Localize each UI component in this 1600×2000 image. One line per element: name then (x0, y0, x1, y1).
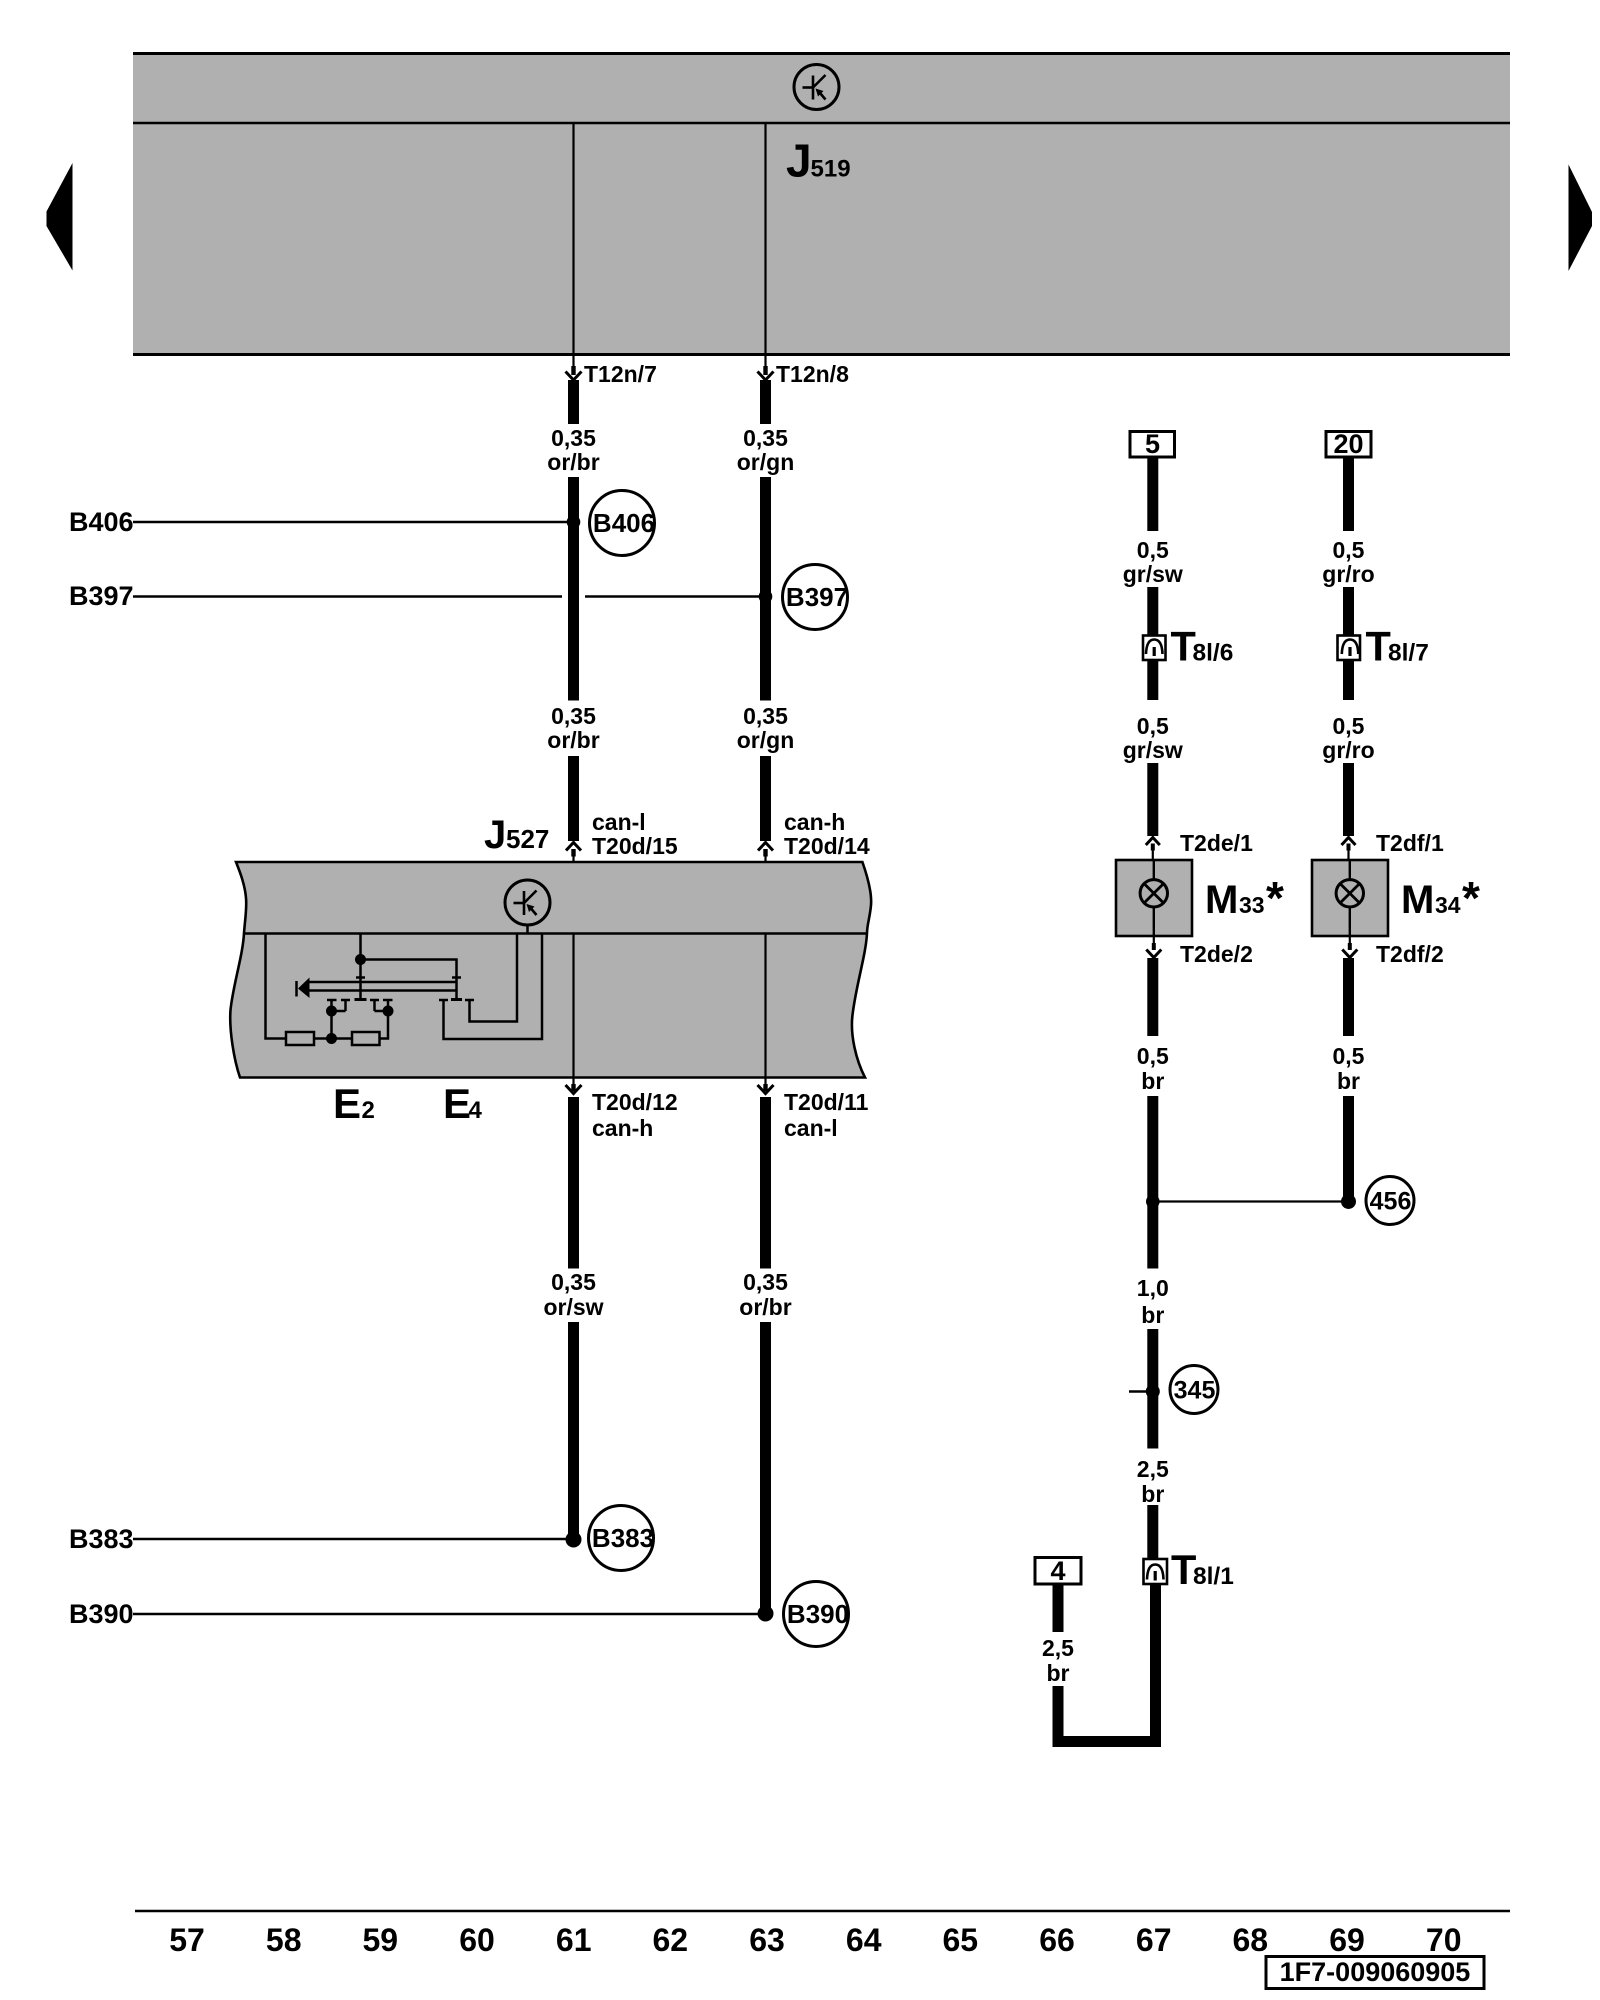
svg-text:4: 4 (469, 1097, 483, 1124)
J527 internal: resistor 2 (352, 1032, 380, 1045)
wire gr/sw segment 3 (1147, 660, 1158, 700)
pin T2de/2 exit arrow (1146, 936, 1253, 967)
connector T8l/1 (1144, 1559, 1168, 1584)
J527 internal: junction dot bottom (326, 1033, 337, 1044)
svg-text:68: 68 (1233, 1922, 1269, 1958)
wire label 0,35 or/br (second) (547, 703, 599, 753)
svg-text:0,5: 0,5 (1137, 1043, 1169, 1069)
wire or/sw lower segment (568, 1322, 579, 1537)
node 345 stub line (1129, 1390, 1153, 1393)
svg-text:T20d/15: T20d/15 (592, 833, 678, 859)
wire label 2,5 br (1137, 1456, 1169, 1507)
svg-text:J: J (786, 135, 812, 187)
wire or/gn upper segment (760, 380, 771, 424)
wire (thin) inside J519 at T12n/7 (572, 124, 574, 354)
svg-text:can-l: can-l (784, 1115, 838, 1141)
wire (thin) inside J519 at T12n/8 (764, 124, 766, 354)
svg-text:66: 66 (1039, 1922, 1075, 1958)
connector T8l/6 (1143, 636, 1166, 661)
svg-text:gr/ro: gr/ro (1322, 561, 1374, 587)
node B390 junction dot (758, 1606, 774, 1622)
wire gr/ro segment 1 (1343, 457, 1354, 531)
svg-text:br: br (1337, 1068, 1360, 1094)
svg-text:2,5: 2,5 (1137, 1456, 1169, 1482)
wire from circled K to internal rail (526, 925, 529, 933)
J527 internal: center gate line with junction (355, 934, 367, 1000)
wire or/br lower segment to J527 (568, 756, 579, 841)
node B397 circle (783, 565, 849, 630)
wire 2,5 br below terminal 4 (1053, 1584, 1064, 1632)
connector T8l/7 (1338, 636, 1361, 661)
wire label 1,0 br (1137, 1275, 1169, 1328)
node B383 junction dot (566, 1532, 582, 1548)
wire label 0,5 gr/ro (1322, 537, 1374, 587)
svg-text:br: br (1141, 1302, 1164, 1328)
wire gr/sw segment 4 (1147, 763, 1158, 836)
svg-text:2: 2 (362, 1097, 375, 1124)
wire gr/ro segment 4 (1343, 763, 1354, 836)
pin T20d/15 entry arrow (can-l) (566, 843, 581, 862)
label T8l/1 (1171, 1546, 1234, 1593)
bus-node symbol (circled K) in J527 (505, 880, 550, 925)
label T8l/7 (1366, 623, 1429, 670)
svg-text:can-h: can-h (592, 1115, 653, 1141)
svg-text:M: M (1205, 878, 1238, 922)
label J527 (484, 813, 549, 857)
node B406 junction dot (567, 515, 581, 529)
diagram number box 1F7-009060905 (1266, 1957, 1484, 1989)
J527 internal: right transistor pair (370, 1000, 394, 1017)
svg-text:0,35: 0,35 (743, 425, 788, 451)
svg-text:456: 456 (1370, 1188, 1412, 1216)
node B383 circle (589, 1506, 655, 1571)
svg-text:T20d/14: T20d/14 (784, 833, 870, 859)
label T8l/6 (1171, 623, 1234, 670)
wire gr/sw segment 1 (1147, 457, 1158, 531)
svg-text:gr/ro: gr/ro (1322, 737, 1374, 763)
svg-text:J: J (484, 813, 506, 857)
svg-text:can-h: can-h (784, 809, 845, 835)
svg-text:0,35: 0,35 (551, 703, 596, 729)
svg-text:0,35: 0,35 (743, 1269, 788, 1295)
label can-h T20d/14 (784, 809, 870, 859)
wire br segment 4 (1147, 1505, 1158, 1560)
pin T12n/7 exit arrow (566, 356, 657, 387)
svg-text:8l/7: 8l/7 (1388, 640, 1429, 667)
svg-text:65: 65 (943, 1922, 979, 1958)
wire label 0,5 br (right) (1333, 1043, 1365, 1094)
wire label 0,5 gr/ro (second) (1322, 713, 1374, 763)
svg-text:*: * (1462, 872, 1480, 924)
wire label 0,35 or/sw (543, 1269, 603, 1320)
svg-text:or/sw: or/sw (543, 1294, 603, 1320)
wire label 0,35 or/br (547, 425, 599, 475)
svg-text:E: E (443, 1080, 471, 1127)
svg-text:0,35: 0,35 (743, 703, 788, 729)
svg-text:br: br (1141, 1068, 1164, 1094)
wire label 0,5 gr/sw (1123, 537, 1183, 587)
svg-text:0,5: 0,5 (1137, 713, 1169, 739)
wire label 0,35 or/gn (second) (737, 703, 795, 753)
svg-text:64: 64 (846, 1922, 882, 1958)
pin T12n/8 exit arrow (758, 356, 850, 387)
svg-text:345: 345 (1174, 1377, 1216, 1405)
svg-text:0,5: 0,5 (1137, 537, 1169, 563)
wire or/gn mid segment (760, 477, 771, 701)
svg-text:T12n/7: T12n/7 (584, 361, 657, 387)
wire or/sw upper segment (568, 1097, 579, 1269)
junction dot 456 right (wire end) (1341, 1194, 1356, 1209)
svg-text:61: 61 (556, 1922, 592, 1958)
svg-text:br: br (1141, 1481, 1164, 1507)
svg-text:1,0: 1,0 (1137, 1275, 1169, 1301)
J527 internal: exit line T20d/12 (572, 934, 574, 1077)
svg-text:5: 5 (1145, 429, 1160, 459)
node 345 junction dot (1146, 1385, 1160, 1399)
label T20d/12 can-h (592, 1089, 678, 1141)
svg-text:58: 58 (266, 1922, 302, 1958)
J527 internal: left transistor pair (326, 1000, 350, 1039)
node B397 junction dot (759, 590, 773, 604)
J527 internal: right gate marks (451, 978, 462, 1000)
svg-text:67: 67 (1136, 1922, 1172, 1958)
wire gr/sw segment 2 (1147, 587, 1158, 635)
svg-text:62: 62 (653, 1922, 689, 1958)
svg-text:0,5: 0,5 (1333, 1043, 1365, 1069)
terminal 4 box (1035, 1556, 1081, 1586)
svg-text:0,35: 0,35 (551, 425, 596, 451)
wire br segment 3 (1147, 1329, 1158, 1449)
J527 internal: resistor 1 (286, 1032, 314, 1045)
svg-text:gr/sw: gr/sw (1123, 737, 1183, 763)
wire label 0,35 or/br (lower right) (739, 1269, 791, 1320)
svg-text:34: 34 (1435, 892, 1461, 918)
svg-text:B383: B383 (69, 1524, 134, 1554)
label E4 (443, 1080, 483, 1127)
left page arrow (47, 163, 73, 271)
svg-text:527: 527 (506, 824, 549, 854)
J527 internal: can bus double line (309, 982, 457, 991)
svg-text:B383: B383 (592, 1523, 654, 1553)
svg-text:T20d/11: T20d/11 (784, 1089, 869, 1115)
junction dot 456 left (1146, 1195, 1160, 1209)
J527 internal: exit line T20d/11 (764, 934, 766, 1077)
J527 internal: left supply line (266, 934, 287, 1039)
svg-text:69: 69 (1329, 1922, 1365, 1958)
svg-text:B397: B397 (69, 581, 134, 611)
pin T2df/1 entry arrow (1342, 830, 1444, 860)
svg-text:59: 59 (363, 1922, 399, 1958)
svg-text:70: 70 (1426, 1922, 1462, 1958)
svg-text:4: 4 (1050, 1556, 1065, 1586)
svg-text:1F7-009060905: 1F7-009060905 (1280, 1957, 1471, 1987)
svg-text:0,5: 0,5 (1333, 713, 1365, 739)
wire br (M34) segment 1 (1343, 958, 1354, 1036)
wire or/br mid segment (568, 477, 579, 701)
label J519 (786, 135, 851, 187)
wire or/br2 upper segment (760, 1097, 771, 1269)
pin T2df/2 exit arrow (1342, 936, 1443, 967)
svg-text:33: 33 (1239, 892, 1265, 918)
svg-text:B390: B390 (69, 1599, 134, 1629)
svg-text:T2df/2: T2df/2 (1376, 941, 1444, 967)
node B383 leader line (133, 1538, 568, 1541)
wire or/br2 lower segment (760, 1322, 771, 1611)
svg-text:M: M (1401, 878, 1434, 922)
wire U-link at bottom (1058, 1584, 1156, 1742)
wire br (M33) segment 2 (1147, 1096, 1158, 1269)
svg-text:8l/6: 8l/6 (1193, 640, 1234, 667)
svg-text:60: 60 (459, 1922, 495, 1958)
label can-l T20d/15 (592, 809, 678, 859)
node B406 leader line (133, 521, 568, 524)
label M33* (1205, 872, 1284, 924)
node 456 circle (1366, 1177, 1414, 1225)
svg-text:57: 57 (169, 1922, 205, 1958)
svg-text:63: 63 (749, 1922, 785, 1958)
bus-node symbol (circled K) in J519 (794, 65, 839, 110)
svg-text:T12n/8: T12n/8 (776, 361, 849, 387)
J527 internal: wire resistor1 to resistor2 (314, 1037, 352, 1040)
svg-text:or/gn: or/gn (737, 449, 795, 475)
svg-text:gr/sw: gr/sw (1123, 561, 1183, 587)
svg-text:B406: B406 (593, 508, 655, 538)
label T20d/11 can-l (784, 1089, 869, 1141)
svg-text:8l/1: 8l/1 (1193, 1563, 1234, 1590)
svg-text:or/br: or/br (739, 1294, 791, 1320)
svg-text:0,5: 0,5 (1333, 537, 1365, 563)
node B406 circle (590, 491, 656, 556)
label E2 (333, 1080, 375, 1127)
pin T20d/14 entry arrow (can-h) (758, 843, 773, 862)
wire label 2,5 br (terminal 4) (1042, 1635, 1074, 1686)
motor M34 box (1312, 860, 1388, 936)
terminal 5 box (1130, 429, 1175, 459)
pin T20d/11 exit arrow (758, 1078, 774, 1094)
pin T20d/12 exit arrow (566, 1078, 582, 1094)
svg-text:B406: B406 (69, 507, 134, 537)
svg-text:or/gn: or/gn (737, 727, 795, 753)
J527 internal: wire resistor2 right corner up (380, 1011, 389, 1039)
node B390 leader line (133, 1613, 760, 1616)
svg-text:519: 519 (811, 156, 851, 183)
node 345 circle (1170, 1366, 1218, 1414)
bottom grid line (135, 1910, 1510, 1913)
control unit J519 box (onboard supply control unit, top band) (133, 52, 1510, 355)
svg-text:T20d/12: T20d/12 (592, 1089, 678, 1115)
wire or/br upper segment (568, 380, 579, 424)
svg-text:B397: B397 (786, 582, 848, 612)
J527 internal: top wire to right gate (361, 960, 457, 999)
svg-text:20: 20 (1333, 429, 1363, 459)
wire br (M34) segment 2 (1343, 1096, 1354, 1201)
control unit J527 box (steering column electronics, wavy-edged) (230, 862, 871, 1078)
svg-text:T2df/1: T2df/1 (1376, 830, 1444, 856)
wire gr/ro segment 3 (1343, 660, 1354, 700)
svg-text:T2de/2: T2de/2 (1180, 941, 1253, 967)
wire or/gn lower segment to J527 (760, 756, 771, 841)
wire link to node 456 (1153, 1200, 1349, 1202)
svg-text:0,35: 0,35 (551, 1269, 596, 1295)
node B397 leader line (hops over or/br wire) (133, 595, 760, 598)
wire label 0,5 gr/sw (second) (1123, 713, 1183, 763)
right page arrow (1569, 165, 1593, 272)
J527 internal: bus arrow (diode) (297, 978, 310, 999)
svg-text:br: br (1047, 1660, 1070, 1686)
motor M33 box (1116, 860, 1192, 936)
svg-text:T2de/1: T2de/1 (1180, 830, 1253, 856)
wire br (M33) segment 1 (1147, 958, 1158, 1036)
terminal 20 box (1326, 429, 1371, 459)
wire gr/ro segment 2 (1343, 587, 1354, 635)
J527 internal: output MOSFET left leg (439, 934, 542, 1039)
svg-text:2,5: 2,5 (1042, 1635, 1074, 1661)
svg-text:or/br: or/br (547, 449, 599, 475)
svg-text:B390: B390 (787, 1599, 849, 1629)
pin T2de/1 entry arrow (1146, 830, 1253, 860)
label M34* (1401, 872, 1480, 924)
svg-text:*: * (1266, 872, 1284, 924)
wire label 0,35 or/gn (737, 425, 795, 475)
wire label 0,5 br (left) (1137, 1043, 1169, 1094)
J527 internal: output MOSFET right leg (465, 934, 517, 1022)
svg-text:or/br: or/br (547, 727, 599, 753)
node B390 circle (784, 1582, 850, 1647)
svg-text:E: E (333, 1080, 361, 1127)
svg-text:can-l: can-l (592, 809, 646, 835)
